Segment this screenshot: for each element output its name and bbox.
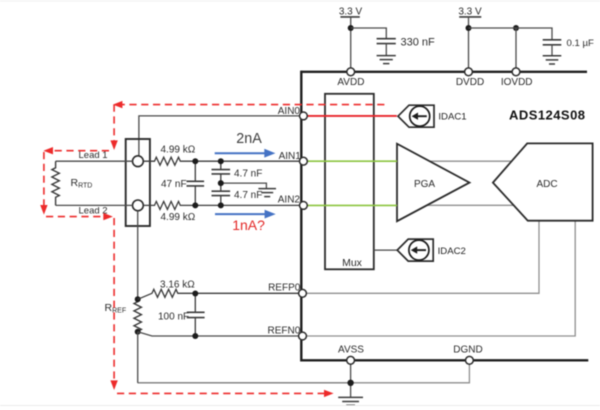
ground (below 0.1uF) [543,56,562,64]
wire 3.3V to AVDD [350,17,352,72]
svg-text:1nA?: 1nA? [232,217,265,233]
node junction DVDD branch [466,25,472,31]
svg-text:REFN0: REFN0 [268,326,301,337]
supply rail 3.3V (analog) [339,7,363,18]
wire branch to 330nF [351,28,387,38]
svg-text:RREF: RREF [105,302,127,315]
svg-text:IDAC1: IDAC1 [438,112,466,123]
wire Lead 1 [56,160,133,162]
wire DGND to ground junction (gray) [351,360,470,383]
current arrow 1nA (blue) [215,210,276,233]
svg-text:4.7 nF: 4.7 nF [234,190,262,201]
resistor RRTD [52,161,59,205]
svg-text:3.3 V: 3.3 V [339,7,363,18]
connector J1 terminal block [126,139,150,226]
IC ADS124S08 outline: left edge [300,71,302,362]
wire Lead 2 [56,204,133,206]
pin REFN0 [299,332,307,340]
wire REFN0 row [138,332,299,336]
pin IOVDD [512,68,520,76]
svg-text:100 nF: 100 nF [158,311,189,322]
capacitor C2 4.7nF (lower) [212,191,231,205]
svg-text:DGND: DGND [453,345,482,356]
ADC block [493,143,593,220]
node dot 100nF top [192,291,198,297]
wire branch to 0.1uF [469,28,553,40]
svg-text:330 nF: 330 nF [401,37,436,49]
wire RREF bottom down [137,332,139,383]
svg-text:Lead 2: Lead 2 [79,205,108,216]
wire Mux to IDAC2 [374,249,397,251]
supply rail 3.3V (digital) [458,7,482,18]
wire connector pin2 down to RREF [137,211,139,299]
wire REFN0 to ADC (gray, inside IC) [303,221,575,336]
svg-text:ADS124S08: ADS124S08 [509,108,585,123]
node junction IOVDD branch [513,25,519,31]
svg-text:PGA: PGA [414,179,435,190]
node dot 100nF bottom [192,333,198,339]
capacitor C3 100nF [187,293,205,336]
ground (below 330nF) [377,56,396,64]
wire PGA output to ADC input (upper gray link) [420,160,520,162]
mux block [325,94,374,269]
pin AIN0 [300,112,308,120]
wire AIN2 to PGA (green) [304,204,397,206]
resistor R1 4.99k (top) [143,157,299,165]
svg-text:47 nF: 47 nF [161,179,187,190]
node dot ground junction [347,380,353,386]
resistor RREF [134,299,141,332]
node junction at AVDD branch [348,25,354,31]
IC ADS124S08 outline: bottom edge [301,359,588,361]
wire AIN1 to PGA (green) [304,160,397,162]
pin AIN2 [300,202,308,210]
svg-text:RRTD: RRTD [71,177,93,190]
svg-text:IOVDD: IOVDD [501,77,533,88]
svg-text:4.7 nF: 4.7 nF [234,169,262,180]
IDAC1 current source [398,105,467,127]
wire REFP0 to ADC (gray, inside IC) [303,221,539,294]
node dot cap midpoint [218,180,224,186]
svg-text:AVDD: AVDD [337,77,364,88]
svg-text:AIN2: AIN2 [278,194,301,205]
resistor R3 3.16k [138,289,299,299]
current arrow 2nA (blue) [215,131,276,157]
ground (filter) [258,189,276,197]
node dots 47nF branch [192,158,198,164]
svg-text:2nA: 2nA [236,131,262,147]
capacitor 0.1uF [543,40,562,56]
wire RREF bottom to ground junction [138,382,351,384]
pin DGND [466,356,474,364]
node dot RREF top [135,296,141,302]
faint page rule bottom [0,405,600,407]
node dot RREF bottom [135,329,141,335]
wire IOVDD drop [515,28,517,72]
wire AIN0 to IDAC1 (red) [304,115,397,117]
svg-text:4.99 kΩ: 4.99 kΩ [161,145,196,156]
wire 3.3V to DVDD [468,17,470,72]
svg-text:3.16 kΩ: 3.16 kΩ [160,279,195,290]
svg-text:DVDD: DVDD [456,77,484,88]
svg-text:REFP0: REFP0 [268,282,301,293]
svg-text:ADC: ADC [536,179,557,190]
svg-text:4.99 kΩ: 4.99 kΩ [161,212,196,223]
capacitor 330nF [377,39,396,56]
pin REFP0 [299,289,307,297]
connector pin 2 [133,200,144,211]
capacitor 47nF branch [187,161,205,205]
wire AVSS to ground [350,360,352,397]
svg-text:Mux: Mux [342,257,363,269]
arrowheads on red dashed path [40,101,333,397]
svg-text:AIN0: AIN0 [278,106,301,117]
svg-text:Lead 1: Lead 1 [79,150,108,161]
connector pin 1 [133,156,144,167]
ground (system, bottom) [338,397,363,405]
wire PGA output to ADC input (lower gray link) [420,204,520,206]
wire AIN0 run from connector [139,116,300,160]
faint page rule top [0,0,600,2]
IDAC2 current source [397,239,466,261]
svg-text:3.3 V: 3.3 V [458,7,482,18]
resistor R2 4.99k (bottom) [143,201,299,209]
svg-text:AIN1: AIN1 [279,151,302,162]
wire cap midpoint to ground [221,183,267,188]
svg-text:AVSS: AVSS [338,345,364,356]
current path IDAC1 (red dashed) [44,105,385,394]
pin DVDD [465,68,473,76]
node dots 4.7nF branch [218,158,224,164]
svg-text:0.1 µF: 0.1 µF [567,38,595,49]
pin AVSS [347,356,355,364]
op-amp PGA U1a [397,144,470,222]
svg-text:IDAC2: IDAC2 [438,246,466,257]
pin AIN1 [300,157,308,165]
capacitor C1 4.7nF (upper) [212,161,231,191]
pin AVDD [347,68,355,76]
IC ADS124S08 outline: top edge [301,71,587,73]
